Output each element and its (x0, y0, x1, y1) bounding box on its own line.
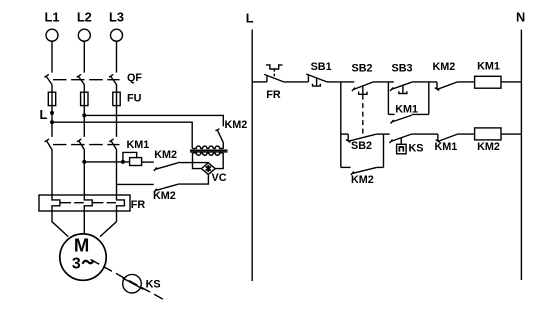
svg-text:L3: L3 (109, 10, 124, 25)
svg-text:SB2: SB2 (352, 63, 373, 75)
wire pole2 tap to resistor (84, 161, 123, 163)
svg-text:SB1: SB1 (311, 61, 332, 73)
wire FU to KM1 pole 2 (83, 106, 85, 137)
svg-text:3: 3 (72, 256, 81, 273)
branch KM1 parallel left (387, 82, 389, 115)
contact KM1 NC lower (436, 134, 458, 142)
wire KM1 to FR pole 2 (83, 150, 85, 195)
svg-text:L: L (246, 11, 254, 26)
svg-text:SB2: SB2 (351, 140, 372, 152)
svg-text:N: N (516, 10, 525, 25)
wire FU to KM1 pole 1 (51, 106, 53, 137)
svg-text:L2: L2 (77, 10, 92, 25)
wire SB2 lower to KS (377, 133, 390, 135)
FR heater pole 2 (84, 195, 92, 211)
contactor KM2 brake contact (216, 129, 224, 143)
contactor KM2 lower brake contact (154, 184, 178, 192)
contactor KM1 pole 3 (109, 139, 117, 150)
wire L to FR contact (252, 81, 267, 83)
svg-text:KM1: KM1 (435, 141, 458, 153)
coil KM1 (475, 76, 501, 88)
wire SB2 to SB3 (373, 81, 394, 83)
wire QF to FU pole 1 (51, 85, 53, 93)
FR heater pole 3 (117, 195, 125, 211)
branch KM2 parallel right (383, 134, 385, 167)
svg-text:QF: QF (127, 72, 142, 84)
node L2 (77, 10, 92, 42)
wire L2 to QF (83, 41, 85, 72)
FR heater pole 1 (52, 195, 60, 211)
svg-text:KM2: KM2 (153, 190, 176, 202)
wire line A to brake transformer (84, 115, 223, 126)
wire line B to transformer primary (52, 122, 192, 148)
wire branch to SB2 lower (341, 133, 348, 135)
contact KM1 parallel (388, 114, 428, 123)
wire L1 to QF (51, 41, 53, 72)
fuse FU pole 2 (81, 92, 88, 105)
fuse FU pole 1 (48, 92, 55, 105)
rectifier VC (201, 163, 215, 175)
svg-text:KM1: KM1 (395, 103, 418, 115)
wire FR to motor pole 2 (83, 211, 85, 234)
bridge link over resistor (123, 152, 137, 162)
rail L (251, 30, 253, 282)
wire FR to SB1 (284, 81, 309, 83)
wire resistor to KM2 contact (142, 161, 154, 163)
branch KM2 parallel left (340, 134, 342, 167)
resistor R brake (123, 158, 142, 166)
branch KM1 parallel right (428, 82, 430, 115)
wire pole3 tap to lower KM2 contact (117, 183, 154, 185)
pushbutton SB2 NO (352, 82, 373, 94)
mechanical link SB2 (362, 95, 364, 138)
coil KM2 (475, 128, 501, 140)
svg-text:KS: KS (409, 143, 424, 155)
wire FU to KM1 pole 3 (116, 106, 118, 137)
contactor KM1 linkage (53, 144, 120, 146)
thermal relay FR box (39, 195, 130, 211)
wire FR to motor pole 1 (52, 211, 68, 237)
wire QF to FU pole 3 (116, 85, 118, 93)
svg-text:M: M (74, 235, 89, 256)
svg-text:KM1: KM1 (477, 61, 500, 73)
pushbutton SB1 (306, 74, 327, 86)
transformer T core (190, 150, 228, 152)
contact KM2 parallel (341, 167, 384, 175)
junction dot line A (82, 113, 86, 117)
node L1 (45, 10, 60, 42)
wire QF to FU pole 2 (83, 85, 85, 93)
breaker QF pole 2 (77, 74, 85, 84)
motor M (60, 234, 106, 280)
shaft line through KS (123, 278, 144, 290)
FR linkage dashes (60, 202, 116, 204)
svg-text:FR: FR (266, 89, 281, 101)
contact KM2 NC (435, 82, 458, 91)
svg-text:FU: FU (127, 92, 142, 104)
svg-text:KM2: KM2 (351, 174, 374, 186)
wire coil KM2 to N (501, 133, 521, 135)
speed relay KS circle (123, 274, 142, 293)
wire KM2 contact to rectifier top (178, 162, 208, 164)
wire KM1 to FR pole 1 (51, 150, 53, 195)
node L3 (109, 10, 124, 42)
wire rectifier output bottom (178, 174, 208, 184)
svg-text:KM2: KM2 (433, 61, 456, 73)
contactor KM1 pole 2 (77, 139, 85, 150)
wire coil KM1 to N (501, 81, 521, 83)
junction dot bridge (121, 160, 125, 164)
svg-text:KM2: KM2 (154, 149, 177, 161)
wire secondary right to rectifier (215, 153, 223, 169)
speed switch KS contact (389, 134, 411, 154)
transformer T secondary (193, 153, 224, 155)
thermal contact FR (264, 65, 284, 82)
svg-text:KM1: KM1 (127, 139, 150, 151)
breaker QF pole 1 (44, 74, 52, 84)
svg-text:L1: L1 (45, 10, 60, 25)
contactor KM2 upper brake contact (154, 163, 178, 171)
pushbutton SB2 lower NC (346, 134, 377, 142)
svg-text:SB3: SB3 (392, 62, 413, 74)
wire KM1 to FR pole 3 (116, 150, 118, 195)
shaft link to KS (91, 260, 164, 300)
wire KM1 NC to coil KM2 (458, 133, 475, 135)
wire FR to motor pole 3 (100, 211, 117, 237)
wire KM2 blade to primary (222, 143, 224, 149)
wire L3 to QF (116, 41, 118, 72)
svg-text:KS: KS (146, 279, 161, 291)
breaker QF pole 3 (109, 74, 117, 84)
wire secondary left to rectifier (193, 153, 202, 169)
svg-text:VC: VC (212, 172, 227, 184)
svg-text:FR: FR (131, 199, 146, 211)
pushbutton SB3 (390, 82, 412, 93)
wire SB1 to SB2 (327, 81, 354, 83)
breaker QF linkage (53, 79, 120, 81)
contactor KM1 pole 1 (45, 139, 53, 150)
junction dot line B (50, 120, 54, 124)
wire branch down (340, 82, 342, 134)
svg-text:L: L (40, 107, 48, 122)
wire KS to KM1 NC (411, 133, 438, 135)
svg-text:KM2: KM2 (225, 119, 248, 131)
fuse FU pole 3 (113, 92, 120, 105)
wire KM2 NC to coil KM1 (458, 81, 475, 83)
node L dot (50, 111, 54, 115)
svg-text:KM2: KM2 (477, 141, 500, 153)
junction dot pole2 tap (82, 160, 86, 164)
wire SB3 to KM2 NC (412, 81, 437, 83)
transformer T primary (192, 146, 223, 148)
rail N (520, 30, 522, 281)
